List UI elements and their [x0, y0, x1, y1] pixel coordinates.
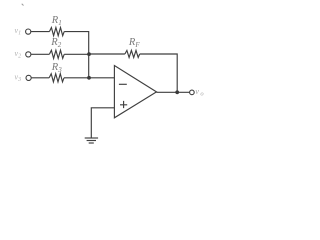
svg-text:v2: v2 [15, 49, 22, 60]
svg-text:R2: R2 [50, 37, 61, 49]
svg-text:vo: vo [195, 86, 204, 98]
svg-text:RF: RF [128, 37, 140, 49]
svg-text:v3: v3 [15, 73, 22, 84]
svg-text:v1: v1 [15, 26, 22, 37]
svg-text:R3: R3 [51, 62, 62, 74]
svg-text:R1: R1 [51, 15, 62, 27]
